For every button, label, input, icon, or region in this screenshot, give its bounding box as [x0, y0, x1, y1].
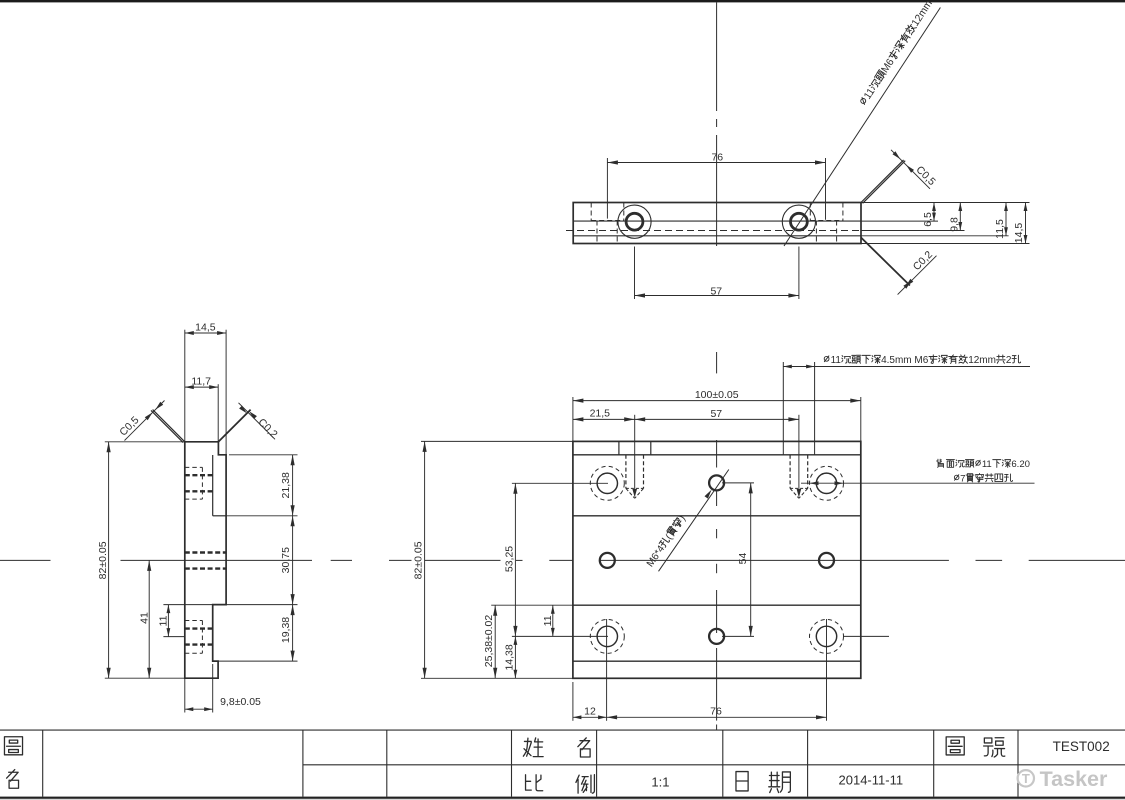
svg-text:82±0.05: 82±0.05 [97, 541, 109, 579]
callout counterbore depth top [783, 355, 1030, 369]
svg-text:Tasker: Tasker [1040, 767, 1108, 791]
dimension 11,7 side view [185, 375, 218, 441]
svg-text:14,5: 14,5 [195, 321, 216, 333]
front view plate outline [573, 441, 861, 678]
horizontal centerline of drawing [0, 559, 1125, 561]
svg-text:12: 12 [584, 706, 596, 718]
top view step line 6.5 [573, 220, 861, 222]
front view tapped hole left (M6) [626, 415, 644, 499]
bottom-right hole centerline marks [827, 619, 890, 721]
svg-text:11: 11 [982, 459, 992, 470]
dimension 21,38 side view [226, 455, 297, 516]
vertical centerline of drawing [716, 2, 718, 730]
svg-text:30,75: 30,75 [280, 547, 292, 573]
label M6*4 holes [645, 513, 688, 569]
dimension 41 side view [138, 560, 151, 678]
svg-text:11,5: 11,5 [994, 219, 1006, 239]
svg-text:14,5: 14,5 [1013, 223, 1025, 244]
title block grid [0, 730, 1125, 800]
title cell date label [736, 772, 790, 793]
svg-text:TEST002: TEST002 [1053, 739, 1110, 754]
side view part outline [185, 442, 226, 678]
top view right counterbore hidden outline [810, 203, 843, 221]
svg-text:21,5: 21,5 [590, 408, 611, 420]
svg-text:4.5mm M6: 4.5mm M6 [881, 355, 929, 366]
svg-text:19,38: 19,38 [280, 617, 292, 643]
front view horizontal edges [573, 455, 861, 661]
Tasker logo [1018, 767, 1108, 791]
svg-text:41: 41 [138, 612, 150, 624]
dimension 100 front view [573, 389, 861, 441]
title cell scale label [526, 775, 595, 793]
counterbore hole bottom-left [590, 619, 624, 653]
svg-text:11: 11 [831, 355, 842, 366]
counterbore hole bottom-right [810, 619, 844, 653]
dimension 14,5 side view [185, 321, 226, 455]
svg-text:54: 54 [737, 553, 749, 565]
dimension 14,38 front view [503, 636, 517, 678]
svg-text:6.20: 6.20 [1011, 459, 1030, 470]
front view tapped hole right (M6) [790, 415, 808, 499]
title cell name label [523, 738, 590, 757]
top view hole axis dashed line [566, 230, 868, 232]
drawing number TEST002 [1053, 739, 1110, 754]
top view plate outline [573, 203, 861, 244]
side view middle hole hidden bars [185, 553, 226, 569]
svg-text:1:1: 1:1 [651, 774, 669, 789]
top view left tapped hole circles [618, 205, 651, 238]
dimension 19,38 side view [218, 605, 297, 662]
dimension 11 side view [157, 605, 212, 637]
svg-text:76: 76 [710, 706, 722, 718]
title cell drawing-name label [4, 737, 22, 788]
front view top slot edges right hole [783, 362, 814, 455]
side view inner step edges [213, 455, 226, 516]
svg-text:12mm: 12mm [968, 355, 996, 366]
dimension 12 front view [573, 682, 607, 721]
svg-text:11: 11 [157, 615, 169, 626]
svg-text:82±0.05: 82±0.05 [413, 541, 425, 579]
dimension 11 front view [542, 605, 555, 636]
top view left through-hole hidden lines [597, 221, 617, 244]
dimension 30,75 side view [280, 516, 295, 605]
dimension 6,5 [922, 203, 936, 227]
svg-text:57: 57 [710, 408, 722, 420]
page top border [0, 0, 1125, 2]
side view bottom hole hidden bars [185, 629, 213, 645]
dimension 14,5 top view [1013, 203, 1027, 244]
scale value 1:1 [651, 774, 669, 789]
svg-text:2014-11-11: 2014-11-11 [839, 773, 904, 788]
chamfer C0.5 side view [117, 401, 185, 443]
leader M6x4 holes [659, 470, 729, 572]
dimension 54 front view [722, 483, 754, 637]
svg-text:2: 2 [1006, 355, 1012, 366]
svg-text:T: T [1022, 771, 1030, 786]
dimension 9,8 [949, 203, 963, 232]
dimension 76 front view [607, 706, 827, 720]
svg-text:76: 76 [711, 151, 723, 163]
callout back counterbore [801, 459, 1035, 485]
svg-text:25,38±0.02: 25,38±0.02 [483, 615, 495, 668]
dimension 82 side view [97, 442, 185, 678]
svg-text:53,25: 53,25 [503, 546, 515, 572]
dimension 21,5 front view [573, 408, 635, 422]
svg-text:100±0.05: 100±0.05 [695, 389, 739, 401]
counterbore hole top-left [590, 466, 624, 500]
title cell drawing-number label [946, 737, 1005, 757]
top view right tapped hole circles [782, 205, 815, 238]
svg-text:9,8: 9,8 [949, 217, 961, 232]
dimension 11,5 [994, 203, 1008, 239]
top view step line 11.5 [573, 235, 861, 237]
counterbore hole top-right [810, 466, 844, 500]
chamfer C0.2 side view [218, 403, 279, 442]
svg-text:9,8±0.05: 9,8±0.05 [220, 696, 261, 708]
svg-text:57: 57 [710, 285, 722, 297]
top view left counterbore hidden outline [591, 203, 624, 221]
bottom-left hole centerline mark [606, 619, 608, 721]
side view bottom counterbore hidden rect [185, 621, 203, 654]
date value [839, 773, 904, 788]
front view top slot edges left hole [619, 441, 651, 454]
leader callout counterbore tapped holes top view [784, 0, 940, 246]
svg-text:7: 7 [960, 474, 965, 485]
dimension 82 front view [413, 441, 573, 678]
svg-text:6,5: 6,5 [922, 212, 934, 227]
svg-text:11,7: 11,7 [191, 375, 211, 387]
top view right side extension lines [861, 203, 1030, 244]
chamfer C0.2 top view [861, 238, 937, 295]
side view top hole hidden bars [185, 475, 213, 491]
top view right through-hole hidden lines [816, 221, 836, 244]
svg-text:14,38: 14,38 [503, 644, 515, 670]
dimension 57 front view [635, 408, 799, 422]
chamfer C0.5 top view [861, 150, 938, 204]
dimension 57 top view [635, 247, 799, 300]
svg-text:11: 11 [542, 615, 554, 626]
M6 through holes front view [600, 475, 834, 644]
dimension 25,38 front view [483, 605, 573, 678]
dimension 76 top view [607, 151, 825, 220]
svg-text:21,38: 21,38 [280, 472, 292, 498]
dimension 9,8 side view [185, 664, 261, 713]
side view top counterbore hidden rect [185, 467, 203, 499]
dimension 53,25 front view [503, 483, 608, 636]
